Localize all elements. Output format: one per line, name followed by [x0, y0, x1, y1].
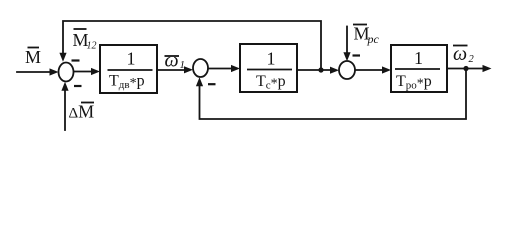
wire: bottom feedback (from output node to junction 2 bottom): [200, 69, 467, 120]
wire: block 3 output to arrow: [447, 68, 483, 70]
summing junction 1: [59, 63, 74, 82]
wire: junction 2 to block 2: [208, 68, 232, 70]
svg-text:2: 2: [469, 54, 475, 65]
node: junction dot on output line: [463, 66, 468, 71]
wire: delta-M input from bottom into junction 1: [64, 91, 66, 130]
arrowhead: delta-M into junction 1 (up): [61, 82, 68, 91]
svg-text:ω: ω: [165, 50, 179, 72]
svg-text:рс: рс: [367, 32, 380, 46]
minus sign: junction 3 top input: [353, 54, 361, 56]
arrowhead: bottom feedback into junction 2 (up): [196, 77, 203, 86]
block 2: 1/(Tc*p): [240, 44, 297, 92]
arrowhead: into junction 3: [330, 67, 339, 74]
block 1: 1/(Tdv*p): [100, 45, 157, 93]
arrowhead: into block 3: [382, 66, 391, 73]
svg-text:Тс*р: Тс*р: [256, 73, 286, 92]
wire: junction 3 to block 3: [355, 69, 383, 71]
block 1 fraction bar: [108, 69, 153, 71]
block 3: 1/(Tro*p): [391, 45, 447, 92]
summing junction 2: [193, 59, 208, 77]
svg-text:1: 1: [127, 49, 136, 69]
arrowhead: into block 2: [231, 65, 240, 72]
arrowhead: input M into junction 1: [50, 68, 59, 75]
block 2 fraction bar: [247, 69, 292, 71]
arrowhead: into junction 2: [184, 66, 193, 73]
svg-text:1: 1: [180, 59, 186, 71]
minus sign: junction 2 bottom input: [208, 83, 216, 85]
svg-text:12: 12: [87, 41, 97, 52]
summing junction 3: [339, 61, 355, 79]
minus sign: junction 1 top input: [72, 59, 80, 61]
node: junction dot after block 2: [318, 67, 323, 72]
arrowhead: into block 1: [91, 68, 100, 75]
arrowhead: top feedback into junction 1 (down): [59, 53, 66, 62]
svg-text:М: М: [25, 47, 41, 67]
svg-text:1: 1: [267, 49, 276, 69]
minus sign: junction 1 bottom input: [74, 85, 82, 87]
svg-text:1: 1: [414, 48, 423, 68]
arrowhead: output omega 2: [483, 65, 492, 72]
wire: input M into summing junction 1: [17, 71, 50, 73]
wire: junction 1 to block 1: [74, 71, 93, 73]
wire: block 1 to junction 2: [157, 69, 185, 71]
wire: M_pc input from top into junction 3: [346, 27, 348, 53]
block 3 fraction bar: [395, 68, 440, 70]
wire: block 2 to junction 3: [297, 69, 331, 71]
arrowhead: M_pc into junction 3 (down): [343, 52, 350, 61]
wire: top feedback (from node after block 2 to junction 1 top): [63, 21, 321, 70]
